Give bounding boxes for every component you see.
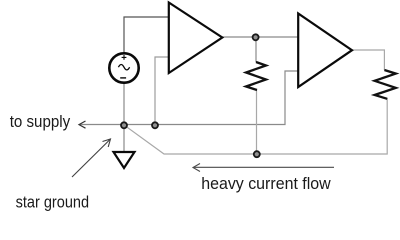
- svg-text:to supply: to supply: [10, 112, 71, 131]
- svg-text:star ground: star ground: [16, 193, 90, 212]
- node U1 inverting return junction: [152, 122, 158, 128]
- wire from source top to op-amp U1 top input: [124, 17, 169, 52]
- wire star point to ground symbol: [123, 125, 125, 152]
- op-amp U2: [298, 14, 352, 88]
- node U1 output junction: [253, 34, 259, 40]
- AC source V1: [109, 53, 138, 82]
- node star point junction: [121, 122, 127, 128]
- resistor R1: [246, 62, 266, 90]
- ground: [114, 152, 135, 168]
- svg-text:heavy current flow: heavy current flow: [201, 174, 331, 193]
- wire U2 output to R2: [352, 50, 384, 70]
- wire ground return rail: [124, 98, 387, 154]
- to supply arrowhead: [79, 121, 86, 128]
- wire R1 bottom lead to ground rail: [256, 90, 258, 154]
- wire U1 output to U2 input: [222, 36, 298, 38]
- heavy current flow annotation arrow: [193, 164, 334, 172]
- star ground annotation arrow: [72, 139, 111, 177]
- op-amp U1: [169, 3, 223, 74]
- wire from source bottom to star point: [123, 84, 125, 125]
- wire from U1 inverting input down to star point: [155, 57, 169, 125]
- resistor R2: [375, 70, 396, 99]
- node R1 ground rail junction: [254, 151, 260, 157]
- wire R1 top lead: [255, 37, 257, 62]
- wire supply rail with to-supply arrow line: [80, 71, 298, 125]
